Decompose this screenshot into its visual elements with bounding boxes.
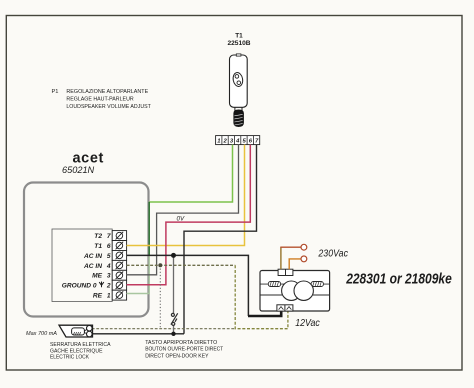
- transformer top connector 230V: [278, 269, 293, 275]
- svg-text:4: 4: [106, 263, 111, 270]
- svg-text:GACHE ELECTRIQUE: GACHE ELECTRIQUE: [50, 348, 103, 354]
- svg-text:DIRECT OPEN-DOOR KEY: DIRECT OPEN-DOOR KEY: [145, 354, 208, 360]
- svg-text:T2: T2: [94, 233, 102, 240]
- junction dot AC IN 4 / lock tap: [158, 263, 162, 267]
- svg-text:RE: RE: [93, 293, 103, 300]
- svg-text:65021N: 65021N: [62, 165, 95, 175]
- label P1 volume adjust note: [52, 89, 152, 110]
- svg-text:6: 6: [107, 243, 111, 250]
- svg-text:ELECTRIC LOCK: ELECTRIC LOCK: [50, 355, 89, 361]
- wire green: strip 3 down: [149, 145, 232, 202]
- svg-text:4: 4: [235, 139, 240, 145]
- wire 230V orange: [289, 259, 301, 269]
- wire switch branch: [173, 255, 175, 313]
- push-button key symbol: [171, 313, 178, 325]
- wire black: strip 7 down to door-key line: [184, 145, 257, 334]
- terminal block of main unit (7 screw terminals): [112, 231, 126, 301]
- svg-text:P1: P1: [52, 89, 59, 95]
- junction dot AC IN 5 / key: [171, 253, 176, 258]
- electric lock symbol: [59, 325, 93, 337]
- wire crimson: strip 6 to GROUND 2: [127, 145, 251, 285]
- svg-text:0V: 0V: [177, 215, 185, 222]
- transformer 228301 box: [260, 271, 330, 312]
- svg-text:12Vac: 12Vac: [295, 318, 320, 329]
- handset cord: [234, 107, 236, 111]
- transformer primary line with fuses: [260, 283, 330, 285]
- svg-text:1: 1: [107, 293, 111, 300]
- main unit box 65021N: [24, 183, 149, 317]
- terminal labels: [62, 233, 111, 300]
- fuse right: [311, 282, 323, 287]
- wire gray: strip 4 to ME 3: [127, 145, 239, 275]
- handset top notch: [236, 54, 241, 56]
- wire pale green to RE 1: [127, 255, 150, 294]
- transformer secondary line: [260, 294, 330, 296]
- lock armature hatch: [74, 332, 81, 335]
- svg-text:1: 1: [217, 139, 220, 145]
- svg-text:2: 2: [223, 139, 228, 145]
- junction dot key / lock return: [171, 332, 175, 336]
- svg-text:BOUTON OUVRE-PORTE DIRECT: BOUTON OUVRE-PORTE DIRECT: [145, 347, 223, 353]
- svg-text:AC IN: AC IN: [83, 253, 102, 260]
- wire dashed lock supply: [92, 328, 235, 330]
- svg-text:22510B: 22510B: [227, 40, 250, 47]
- svg-text:SERRATURA ELETTRICA: SERRATURA ELETTRICA: [50, 342, 111, 348]
- ground symbol in GROUND label: [99, 282, 104, 288]
- terminal label panel: [52, 229, 112, 302]
- svg-text:3: 3: [107, 273, 111, 280]
- wire 230V brown: [280, 247, 282, 269]
- svg-text:5: 5: [107, 253, 111, 260]
- svg-text:REGLAGE HAUT-PARLEUR: REGLAGE HAUT-PARLEUR: [66, 97, 133, 103]
- svg-text:LOUDSPEAKER VOLUME ADJUST: LOUDSPEAKER VOLUME ADJUST: [66, 104, 151, 110]
- handset speaker oval: [232, 72, 244, 87]
- 230V terminal top: [301, 244, 307, 250]
- svg-text:T1: T1: [94, 243, 102, 250]
- wire olive dashed AC IN 4 to 12V: [127, 264, 236, 266]
- svg-text:228301 or 21809ke: 228301 or 21809ke: [345, 270, 451, 287]
- label direct open-door key text: [145, 340, 223, 360]
- wire yellow: strip 5 to T1 6: [127, 145, 245, 246]
- svg-text:AC IN: AC IN: [83, 263, 102, 270]
- wire thick black 12V feed: [248, 311, 281, 316]
- handset T1 22510B body: [230, 55, 248, 107]
- svg-text:T1: T1: [235, 32, 243, 39]
- 230V terminal bottom: [301, 256, 307, 262]
- svg-text:2: 2: [106, 283, 111, 290]
- label electric lock text: [50, 342, 111, 360]
- svg-text:REGOLAZIONE ALTOPARLANTE: REGOLAZIONE ALTOPARLANTE: [66, 89, 148, 95]
- lock terminals: [87, 325, 93, 331]
- svg-text:Max 700 mA: Max 700 mA: [26, 331, 57, 337]
- svg-text:TASTO APRIPORTA DIRETTO: TASTO APRIPORTA DIRETTO: [145, 340, 217, 346]
- svg-text:7: 7: [107, 233, 111, 240]
- wire dotted tap AC IN 4 to lock: [159, 265, 161, 328]
- wire dark green vertical segment: [148, 202, 150, 256]
- handset terminal strip 1-7: [216, 136, 260, 145]
- wire black lock return: [92, 333, 184, 335]
- svg-text:ME: ME: [92, 273, 102, 280]
- svg-text:230Vac: 230Vac: [318, 249, 348, 260]
- transformer bottom connector 12V: [277, 305, 293, 311]
- fuse left: [268, 282, 280, 287]
- wire black AC IN 5 to transformer: [127, 255, 249, 316]
- transformer windings: [282, 281, 301, 300]
- svg-text:GROUND 0: GROUND 0: [62, 283, 97, 290]
